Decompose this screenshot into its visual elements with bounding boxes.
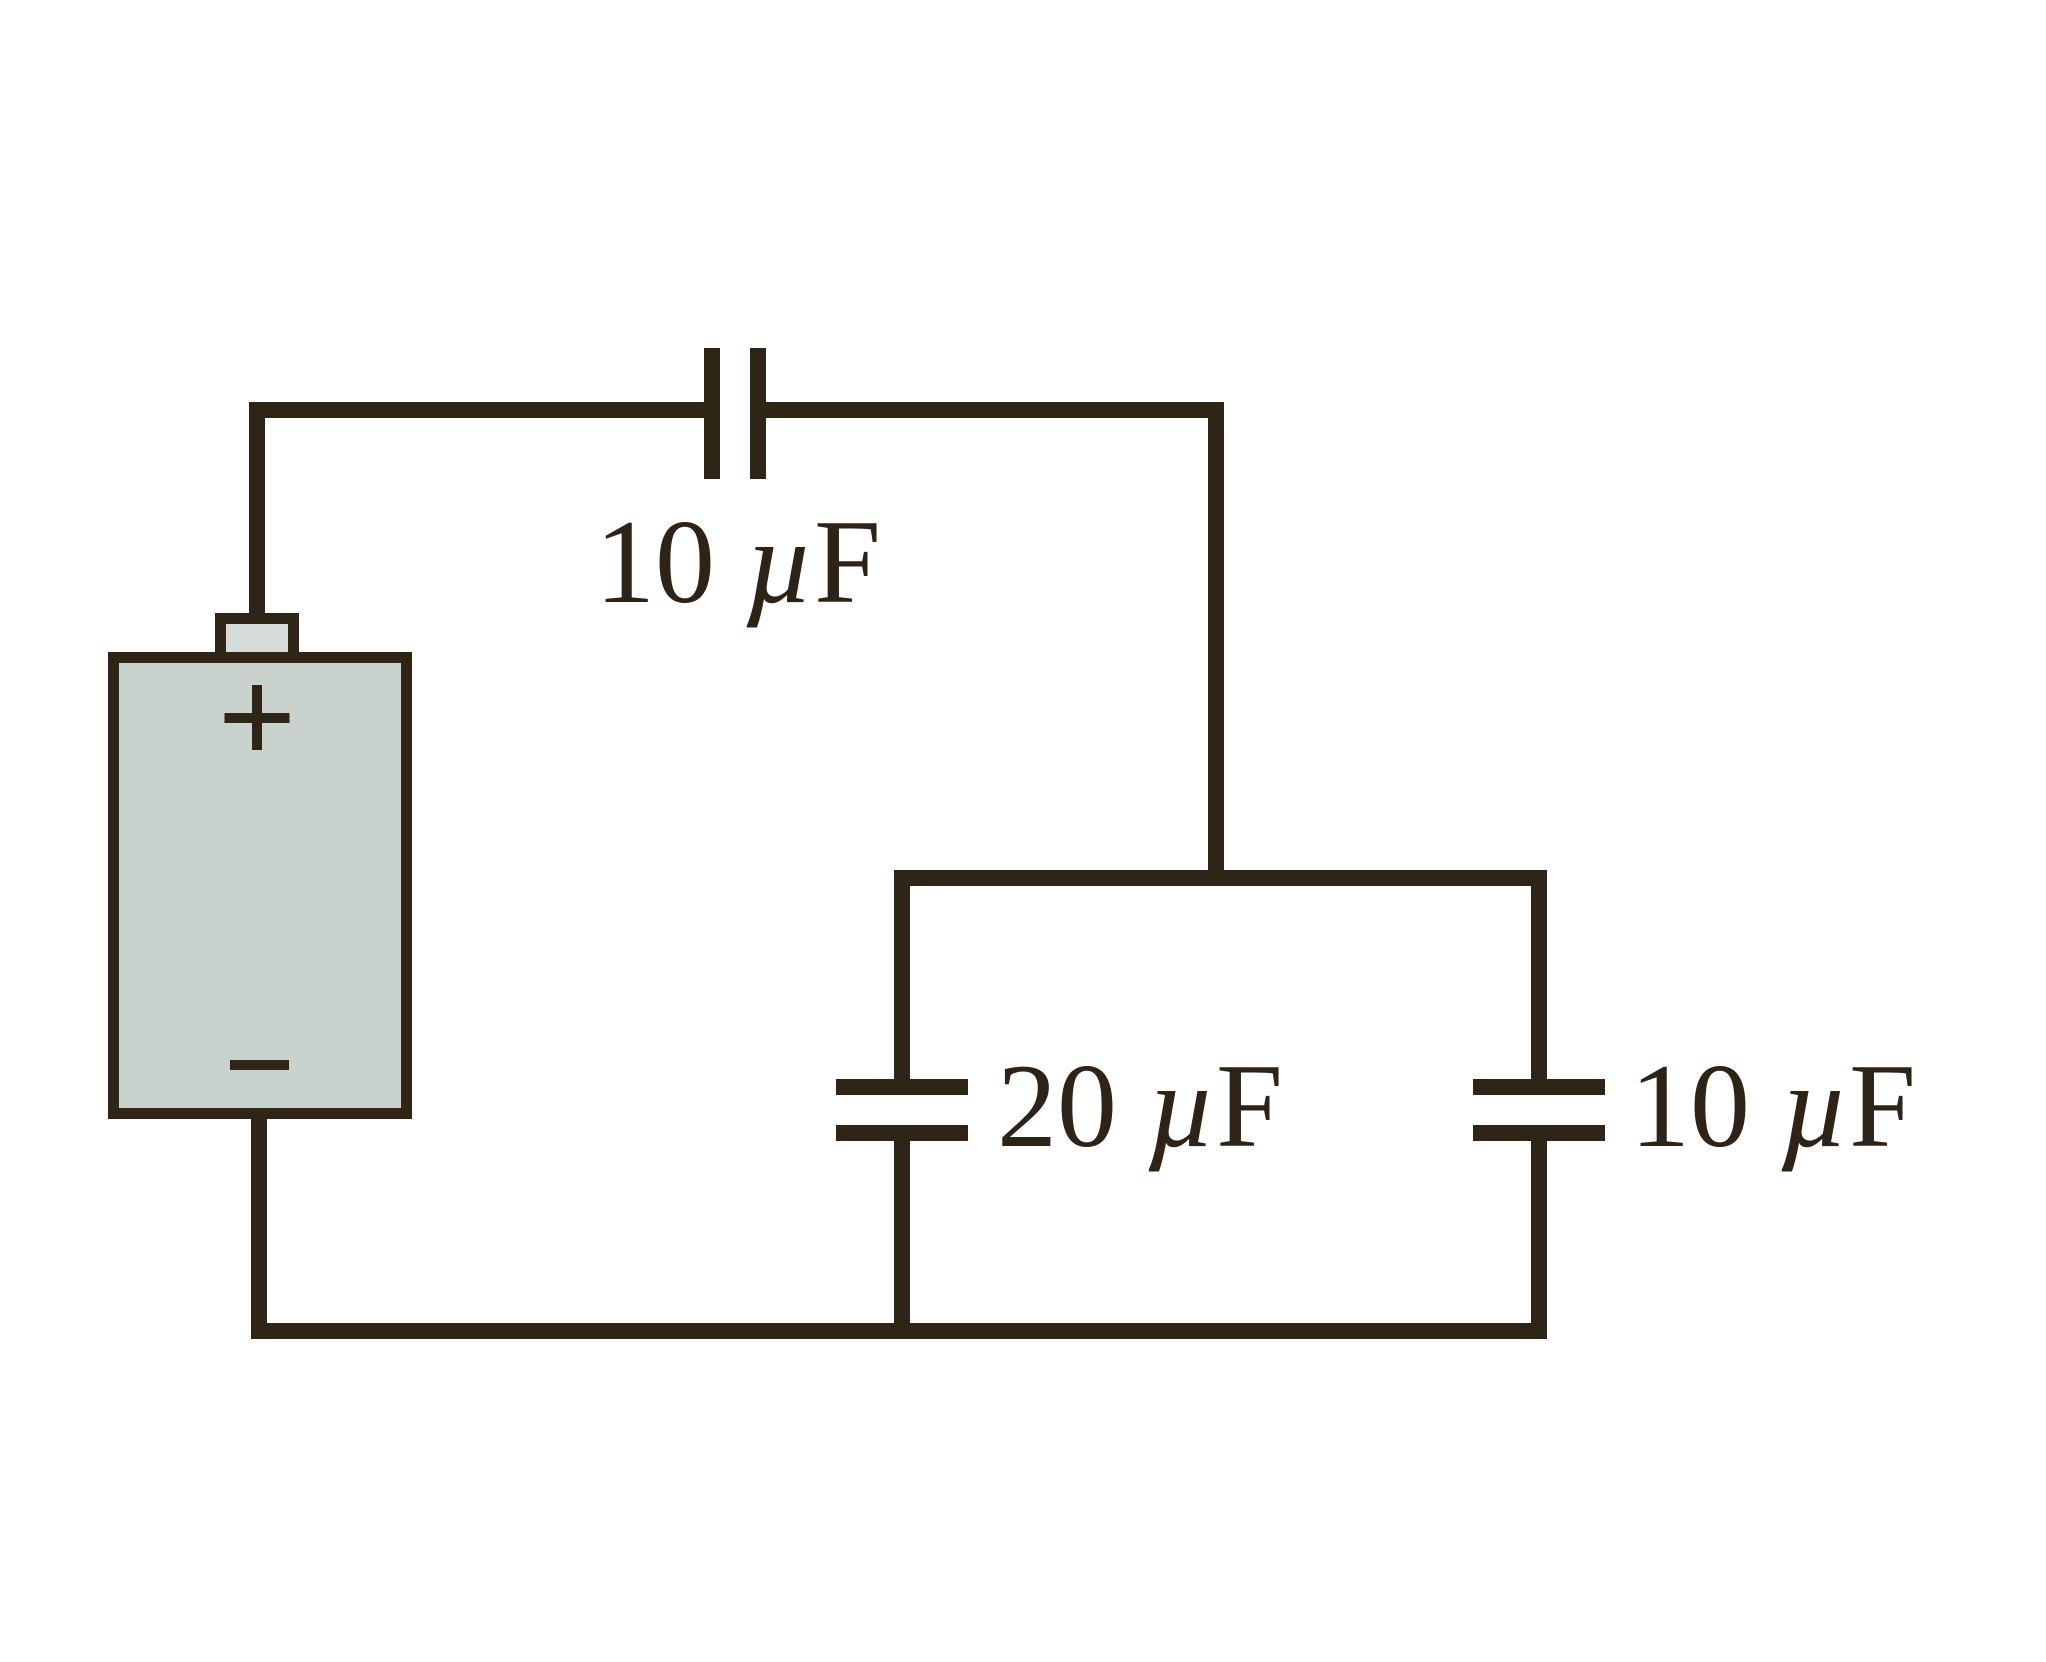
battery + symbol (225, 685, 290, 750)
wire: parallel sub-circuit top rail with corners down to C2 and C3 top plates (902, 878, 1539, 1087)
capacitor C1 left plate (704, 348, 720, 479)
capacitor C3 top plate (1473, 1079, 1605, 1095)
wire: battery + terminal up and top rail to C1 left plate (257, 410, 704, 630)
wire: C1 right plate to top-right corner, down to junction with parallel rail (766, 410, 1216, 886)
svg-text:10 µF: 10 µF (1630, 1039, 1916, 1172)
capacitor C3 bottom plate (1473, 1125, 1605, 1141)
capacitor C2 bottom plate (836, 1125, 968, 1141)
wire: C3 bottom plate down to bottom rail (1531, 1133, 1547, 1331)
battery - symbol (230, 1060, 289, 1070)
wire: battery - terminal down, bottom rail to the right (259, 1119, 1547, 1331)
capacitor C1 right plate (750, 348, 766, 479)
svg-text:10 µF: 10 µF (595, 495, 881, 628)
svg-text:20 µF: 20 µF (997, 1039, 1283, 1172)
capacitor C2 top plate (836, 1079, 968, 1095)
battery body (114, 658, 407, 1114)
wire: C2 bottom plate down to bottom rail (894, 1133, 910, 1331)
battery positive terminal nub (221, 619, 294, 659)
